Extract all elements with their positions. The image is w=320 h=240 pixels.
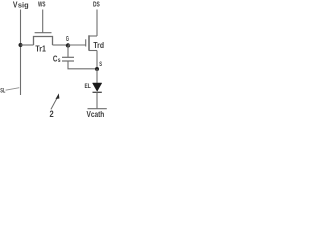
wire node G down to capacitor Cs xyxy=(67,46,69,58)
wire node S down to EL diode xyxy=(96,69,98,83)
wire Trd source down to node S xyxy=(96,51,98,70)
capacitor Cs xyxy=(62,57,74,61)
wire from Tr1 drain to node G xyxy=(53,44,69,46)
svg-text:DS: DS xyxy=(93,0,100,8)
label DS xyxy=(93,0,100,8)
svg-text:G: G xyxy=(66,36,69,43)
label G xyxy=(66,36,69,43)
transistor Trd xyxy=(86,35,97,50)
svg-text:sig: sig xyxy=(18,1,29,10)
node S dot xyxy=(95,67,99,71)
label 2 xyxy=(50,109,54,119)
wire capacitor Cs bottom to node S xyxy=(68,61,97,69)
svg-text:S: S xyxy=(99,61,102,68)
svg-text:EL: EL xyxy=(85,83,91,90)
transistor Tr1 xyxy=(34,33,53,45)
label Cs xyxy=(53,54,61,64)
wire node G to Trd gate xyxy=(68,44,86,46)
wire from signal line to Tr1 source xyxy=(21,44,34,46)
label Vsig xyxy=(13,0,29,10)
node junction dot on signal line xyxy=(19,43,23,47)
wire EL cathode to Vcath terminal xyxy=(96,92,98,108)
leader line from SL label to signal line xyxy=(6,88,20,91)
diode EL (OLED) xyxy=(93,83,102,92)
gate line WS vertical wire xyxy=(42,10,44,33)
figure arrow 2 xyxy=(51,93,60,109)
svg-text:WS: WS xyxy=(38,0,46,8)
svg-text:Vcath: Vcath xyxy=(87,109,105,119)
node G dot xyxy=(66,43,70,47)
label SL xyxy=(0,88,5,95)
svg-text:SL: SL xyxy=(0,88,5,95)
label Vcath xyxy=(87,109,105,119)
Vcath terminal bar xyxy=(88,108,107,110)
label EL xyxy=(85,83,91,90)
label Tr1 xyxy=(35,44,46,53)
svg-text:s: s xyxy=(58,57,61,64)
svg-text:Trd: Trd xyxy=(93,40,104,50)
label S xyxy=(99,61,102,68)
drain line DS vertical wire xyxy=(96,10,98,37)
wire signal line Vsig/SL vertical xyxy=(20,10,22,96)
label WS xyxy=(38,0,46,8)
svg-text:Tr1: Tr1 xyxy=(35,44,46,53)
label Trd xyxy=(93,40,104,50)
svg-text:2: 2 xyxy=(50,109,54,119)
